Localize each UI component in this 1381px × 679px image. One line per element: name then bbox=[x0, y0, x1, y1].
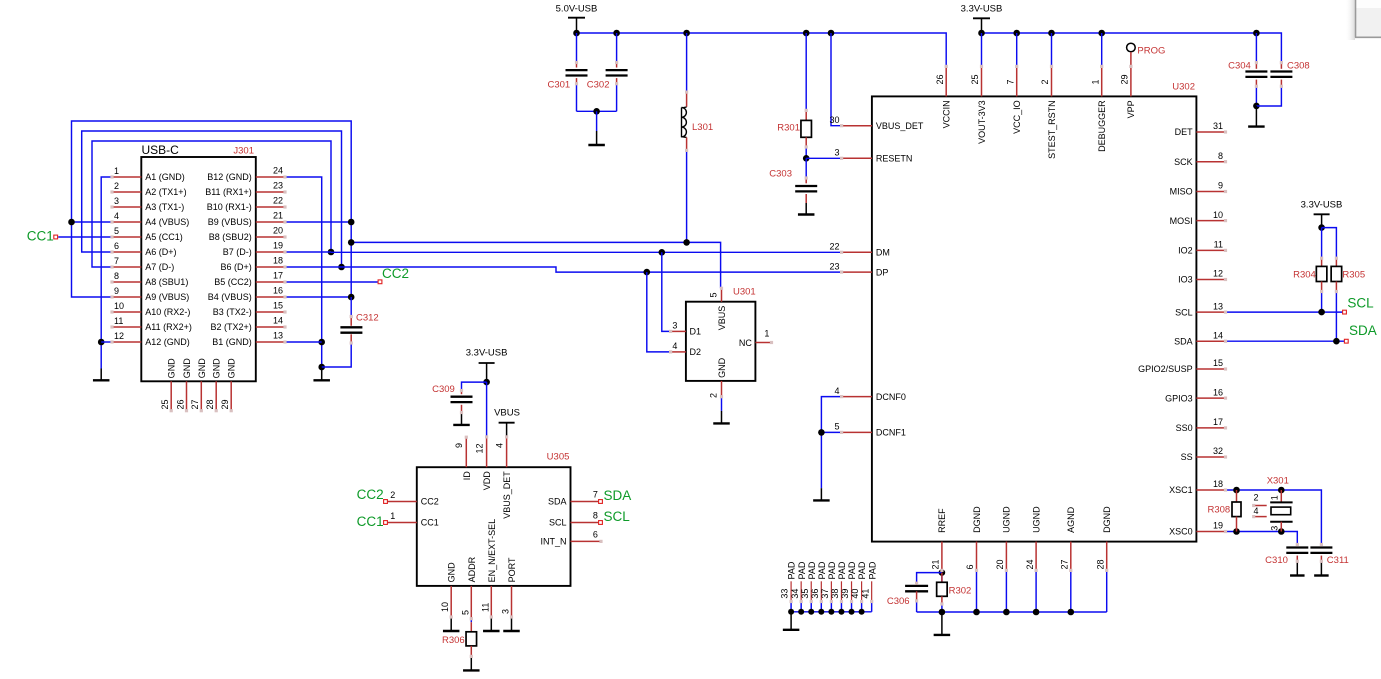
crystal X301 bbox=[1270, 501, 1292, 503]
svg-text:18: 18 bbox=[1213, 479, 1223, 489]
svg-text:VBUS: VBUS bbox=[494, 408, 520, 419]
U302 right pin 32 SS bbox=[1196, 456, 1225, 458]
wire VDD drop bbox=[486, 382, 488, 437]
crystal X301 pin 3 lead bbox=[1280, 522, 1282, 532]
svg-text:VBUS_DET: VBUS_DET bbox=[876, 121, 924, 131]
svg-text:VDD: VDD bbox=[482, 471, 492, 491]
wire 3.3V drop x=1016.7 bbox=[1016, 33, 1018, 66]
ground C304/C308 bbox=[1255, 106, 1257, 127]
svg-text:26: 26 bbox=[935, 74, 945, 84]
svg-text:12: 12 bbox=[1213, 269, 1223, 279]
U302 bottom pin 28 DGND bbox=[1106, 542, 1108, 571]
svg-text:8: 8 bbox=[1218, 151, 1223, 161]
power 5.0V-USB bbox=[568, 17, 585, 19]
svg-text:XSC0: XSC0 bbox=[1169, 527, 1193, 537]
junction gnd rail bbox=[1033, 609, 1040, 616]
capacitor C310 bottom lead bbox=[1296, 556, 1298, 562]
junction 5V/C302 bbox=[613, 30, 620, 37]
U302 right pin 12 IO3 bbox=[1196, 279, 1225, 281]
svg-text:PAD: PAD bbox=[807, 561, 817, 579]
J301 pin 1 A1 (GND) bbox=[112, 176, 141, 178]
U302 right pin 18 XSC1 bbox=[1196, 489, 1225, 491]
wire SCL bbox=[1226, 311, 1344, 313]
capacitor C312 bbox=[340, 326, 362, 328]
svg-text:A1 (GND): A1 (GND) bbox=[145, 172, 185, 182]
terminal SCL bbox=[1343, 310, 1347, 314]
junction VDD/C309 bbox=[483, 379, 490, 386]
capacitor C308 bbox=[1270, 70, 1292, 72]
svg-text:40: 40 bbox=[850, 589, 860, 599]
U301 pin 5 VBUS bbox=[721, 288, 723, 301]
ground U305 GND bbox=[450, 617, 452, 631]
svg-text:35: 35 bbox=[800, 589, 810, 599]
svg-text:R302: R302 bbox=[949, 585, 972, 596]
svg-text:8: 8 bbox=[114, 271, 119, 281]
ground C303 bbox=[805, 203, 807, 215]
wire DCNF0 bbox=[821, 397, 841, 489]
svg-text:DCNF0: DCNF0 bbox=[876, 392, 906, 402]
resistor R305 bbox=[1331, 266, 1342, 281]
J301 pin 19 B7 (D-) bbox=[256, 251, 285, 253]
svg-text:SCL: SCL bbox=[1175, 307, 1193, 317]
svg-text:MOSI: MOSI bbox=[1170, 216, 1193, 226]
junction PAD bbox=[838, 609, 844, 615]
U305 pin 3 PORT bbox=[511, 586, 513, 617]
svg-text:SDA: SDA bbox=[1174, 336, 1193, 346]
svg-text:SDA: SDA bbox=[548, 497, 567, 507]
svg-text:AGND: AGND bbox=[1066, 506, 1076, 533]
J301 pin 16 B4 (VBUS) bbox=[256, 296, 285, 298]
J301 pin 25 GND bbox=[170, 381, 172, 410]
svg-text:USB-C: USB-C bbox=[142, 143, 180, 157]
wire 3.3V rail bbox=[982, 33, 1282, 63]
junction PAD bbox=[798, 609, 804, 615]
svg-text:11: 11 bbox=[1214, 240, 1223, 250]
svg-text:7: 7 bbox=[1005, 79, 1015, 84]
svg-text:GND: GND bbox=[197, 358, 207, 379]
U305 pin 9 ID bbox=[465, 437, 467, 467]
svg-text:STEST_RSTN: STEST_RSTN bbox=[1047, 100, 1057, 159]
J301 pin 9 A9 (VBUS) bbox=[112, 296, 141, 298]
junction A4 VBUS bbox=[68, 219, 75, 226]
svg-text:SS0: SS0 bbox=[1176, 423, 1193, 433]
junction B4 VBUS bbox=[348, 294, 355, 301]
junction rail/pin25 bbox=[978, 30, 985, 37]
svg-text:C311: C311 bbox=[1327, 555, 1349, 566]
svg-text:X301: X301 bbox=[1267, 476, 1289, 487]
junction rail/pin2 bbox=[1048, 30, 1055, 37]
svg-text:1: 1 bbox=[114, 166, 119, 176]
svg-text:24: 24 bbox=[273, 166, 283, 176]
svg-text:18: 18 bbox=[273, 256, 283, 266]
wire RESETN bbox=[806, 157, 841, 159]
J301 pin 6 A6 (D+) bbox=[112, 251, 141, 253]
svg-text:27: 27 bbox=[1060, 559, 1070, 569]
junction PAD bbox=[788, 609, 794, 615]
J301 pin 2 A2 (TX1+) bbox=[112, 191, 141, 193]
svg-text:VBUS: VBUS bbox=[717, 306, 727, 331]
junction DM/U301 D1 bbox=[659, 249, 666, 256]
svg-text:4: 4 bbox=[1254, 506, 1259, 516]
svg-text:CC1: CC1 bbox=[357, 514, 384, 529]
J301 pin 17 B5 (CC2) bbox=[256, 281, 285, 283]
svg-text:B12 (GND): B12 (GND) bbox=[207, 172, 252, 182]
wire VBUS A-side (A4/A9) bbox=[72, 121, 352, 297]
svg-text:CC2: CC2 bbox=[357, 487, 384, 502]
ground C301/C302 bbox=[596, 131, 598, 145]
resistor R304 top lead bbox=[1321, 228, 1323, 259]
U302 left pin 3 RESETN bbox=[842, 157, 872, 159]
wire C312 top lead bbox=[350, 297, 352, 317]
resistor R308 bbox=[1232, 502, 1241, 517]
svg-text:16: 16 bbox=[273, 286, 283, 296]
U302 bottom pin 21 RREF bbox=[941, 542, 943, 571]
capacitor C301 bbox=[566, 69, 588, 71]
svg-text:8: 8 bbox=[593, 510, 598, 520]
capacitor C303 bottom lead bbox=[805, 194, 807, 203]
junction 5V/C301 bbox=[573, 30, 580, 37]
resistor R304 bottom lead bbox=[1321, 282, 1323, 292]
svg-text:A10 (RX2-): A10 (RX2-) bbox=[145, 307, 190, 317]
svg-text:9: 9 bbox=[454, 443, 464, 448]
svg-text:SCL: SCL bbox=[1347, 295, 1374, 310]
wire DM bbox=[331, 251, 842, 253]
wire XSC1 bbox=[1225, 490, 1322, 543]
svg-text:A2 (TX1+): A2 (TX1+) bbox=[145, 187, 186, 197]
capacitor C304 top lead bbox=[1255, 33, 1257, 63]
svg-text:6: 6 bbox=[114, 241, 119, 251]
ground C311 bbox=[1320, 561, 1322, 575]
svg-text:U301: U301 bbox=[733, 287, 756, 298]
PAD pin 33 bbox=[790, 581, 792, 601]
PAD pin 35 bbox=[810, 581, 812, 601]
svg-text:C301: C301 bbox=[547, 80, 570, 91]
junction rail/pin7 bbox=[1013, 30, 1020, 37]
wire XSC0 bbox=[1225, 532, 1298, 544]
pin PROG circle bbox=[1127, 43, 1136, 52]
U302 left pin 4 DCNF0 bbox=[842, 396, 872, 398]
inductor L301 bottom lead bbox=[686, 138, 688, 151]
power 3.3V-USB (U305) bbox=[479, 362, 495, 364]
junction DP/U301 D2 bbox=[644, 269, 651, 276]
U302 left pin 23 DP bbox=[842, 271, 872, 273]
U302 top pin 25 VOUT-3V3 bbox=[981, 66, 983, 96]
IC U305 outline bbox=[417, 467, 571, 586]
svg-text:6: 6 bbox=[593, 529, 598, 539]
crystal X301 pin 1 lead bbox=[1280, 490, 1282, 502]
svg-text:PAD: PAD bbox=[797, 561, 807, 579]
svg-text:PAD: PAD bbox=[857, 561, 867, 579]
svg-text:24: 24 bbox=[1025, 559, 1035, 569]
svg-text:C310: C310 bbox=[1265, 555, 1288, 566]
junction gnd rail bbox=[973, 609, 980, 616]
U302 top pin 7 VCC_IO bbox=[1016, 66, 1018, 96]
junction pullup top bbox=[1318, 224, 1325, 231]
power 3.3V-USB (top) bbox=[973, 17, 990, 19]
wire DCNF1 bbox=[821, 431, 841, 433]
U302 right pin 8 SCK bbox=[1196, 161, 1225, 163]
junction 5V/R301 bbox=[803, 30, 810, 37]
junction XSC0/R308 bbox=[1233, 528, 1240, 535]
U302 right pin 14 SDA bbox=[1196, 340, 1225, 342]
J301 pin 23 B11 (RX1+) bbox=[256, 191, 285, 193]
svg-text:12: 12 bbox=[474, 443, 484, 453]
svg-text:4: 4 bbox=[114, 211, 119, 221]
J301 pin 11 A11 (RX2+) bbox=[112, 326, 141, 328]
inductor L301 top lead bbox=[686, 33, 688, 92]
J301 pin 21 B9 (VBUS) bbox=[256, 221, 285, 223]
svg-text:7: 7 bbox=[593, 489, 598, 499]
wire UGND 24 drop bbox=[1035, 570, 1037, 612]
svg-text:41: 41 bbox=[860, 589, 870, 599]
J301 pin 13 B1 (GND) bbox=[256, 341, 285, 343]
J301 pin 4 A4 (VBUS) bbox=[112, 221, 141, 223]
C301 bottom lead bbox=[576, 78, 578, 84]
wire U301 D2 drop bbox=[647, 272, 671, 352]
wire RREF net bbox=[941, 570, 943, 582]
IC U302 outline bbox=[872, 96, 1197, 541]
svg-text:J301: J301 bbox=[233, 146, 254, 157]
wire B12 GND down bbox=[285, 177, 322, 369]
U302 bottom pin 6 DGND bbox=[976, 542, 978, 571]
junction 5V/L301 bbox=[683, 30, 690, 37]
resistor R305 bottom lead bbox=[1335, 282, 1337, 292]
junction B9 VBUS bbox=[348, 219, 355, 226]
svg-text:6: 6 bbox=[965, 564, 975, 569]
junction XSC1/X301 bbox=[1278, 487, 1285, 494]
junction PAD bbox=[818, 609, 824, 615]
PAD pin 40 bbox=[861, 581, 863, 601]
wire VPP/PROG bbox=[1130, 52, 1132, 66]
svg-text:2: 2 bbox=[709, 393, 719, 398]
U302 right pin 31 DET bbox=[1196, 131, 1225, 133]
svg-text:C309: C309 bbox=[432, 384, 455, 395]
wire B5 CC2 bbox=[285, 281, 378, 283]
wire RREF to C306 bbox=[917, 573, 942, 584]
U302 right pin 10 MOSI bbox=[1196, 220, 1225, 222]
resistor R301 bbox=[801, 120, 812, 137]
terminal SDA bbox=[1344, 339, 1348, 343]
svg-text:GPIO3: GPIO3 bbox=[1165, 393, 1193, 403]
J301 pin 14 B2 (TX2+) bbox=[256, 326, 285, 328]
U302 top pin 29 VPP bbox=[1130, 66, 1132, 96]
U302 bottom pin 27 AGND bbox=[1070, 542, 1072, 571]
svg-text:R304: R304 bbox=[1293, 270, 1316, 281]
svg-text:C312: C312 bbox=[356, 313, 379, 324]
svg-text:SS: SS bbox=[1181, 452, 1193, 462]
svg-text:17: 17 bbox=[1213, 417, 1223, 427]
svg-text:A5 (CC1): A5 (CC1) bbox=[145, 232, 183, 242]
junction rail/C304 bbox=[1253, 30, 1260, 37]
svg-text:R306: R306 bbox=[442, 635, 465, 646]
wire ground rail (U302) bbox=[917, 611, 1107, 613]
capacitor C311 bottom lead bbox=[1320, 556, 1322, 562]
svg-text:3.3V-USB: 3.3V-USB bbox=[466, 348, 508, 359]
wire 3.3V drop x=981.5 bbox=[981, 33, 983, 66]
J301 pin 26 GND bbox=[186, 381, 188, 410]
svg-text:PAD: PAD bbox=[837, 561, 847, 579]
capacitor C311 bbox=[1310, 546, 1332, 548]
U305 pin 4 VBUS_DET bbox=[506, 437, 508, 467]
svg-text:SDA: SDA bbox=[604, 488, 632, 503]
J301 pin 8 A8 (SBU1) bbox=[112, 281, 141, 283]
junction SDA/R305 bbox=[1333, 338, 1340, 345]
junction C304/C308 gnd bbox=[1253, 103, 1260, 110]
svg-text:PROG: PROG bbox=[1137, 46, 1165, 57]
svg-text:PAD: PAD bbox=[817, 561, 827, 579]
svg-text:39: 39 bbox=[840, 589, 850, 599]
U302 right pin 19 XSC0 bbox=[1196, 531, 1225, 533]
J301 pin 24 B12 (GND) bbox=[256, 176, 285, 178]
UI scrollbar corner box bbox=[1355, 0, 1381, 38]
U305 pin 5 ADDR bbox=[470, 586, 472, 619]
J301 pin 5 A5 (CC1) bbox=[112, 236, 141, 238]
wire to ground bbox=[596, 111, 598, 131]
junction VBUS/vertical bbox=[348, 239, 355, 246]
svg-text:36: 36 bbox=[810, 589, 820, 599]
U302 right pin 11 IO2 bbox=[1196, 249, 1225, 251]
svg-text:IO2: IO2 bbox=[1178, 246, 1193, 256]
svg-text:RESETN: RESETN bbox=[876, 154, 913, 164]
wire C312 bottom to ground bbox=[350, 334, 352, 343]
svg-text:GND: GND bbox=[227, 358, 237, 379]
svg-text:34: 34 bbox=[790, 589, 800, 599]
svg-text:14: 14 bbox=[1213, 330, 1223, 340]
svg-text:DGND: DGND bbox=[972, 506, 982, 533]
inductor L301 bbox=[681, 108, 683, 138]
wire PAD rail bbox=[791, 611, 872, 613]
svg-text:A3 (TX1-): A3 (TX1-) bbox=[145, 202, 184, 212]
svg-text:3: 3 bbox=[1269, 526, 1279, 531]
J301 pin 28 GND bbox=[215, 381, 217, 410]
wire 5V rail bbox=[577, 33, 947, 66]
U302 left pin 5 DCNF1 bbox=[842, 431, 872, 433]
wire B4 VBUS link bbox=[285, 296, 351, 298]
wire A1/A12 GND bbox=[101, 177, 112, 369]
J301 pin 27 GND bbox=[200, 381, 202, 410]
wire DGND 6 drop bbox=[976, 570, 978, 612]
svg-text:L301: L301 bbox=[692, 122, 713, 133]
wire D- A7 to top bbox=[92, 141, 331, 267]
svg-text:DEBUGGER: DEBUGGER bbox=[1097, 100, 1107, 152]
junction A12 GND bbox=[98, 339, 105, 346]
wire B1 GND link bbox=[285, 341, 322, 343]
junction B1 GND bbox=[318, 339, 325, 346]
wire DP bbox=[342, 267, 842, 272]
U301 pin 1 NC bbox=[755, 342, 771, 344]
svg-text:XSC1: XSC1 bbox=[1169, 485, 1193, 495]
svg-text:20: 20 bbox=[273, 226, 283, 236]
svg-text:38: 38 bbox=[830, 589, 840, 599]
svg-text:5.0V-USB: 5.0V-USB bbox=[556, 3, 598, 14]
J301 pin 22 B10 (RX1-) bbox=[256, 206, 285, 208]
terminal CC2 (J301) bbox=[378, 280, 382, 284]
svg-text:15: 15 bbox=[273, 301, 283, 311]
svg-text:R305: R305 bbox=[1342, 270, 1365, 281]
svg-text:1: 1 bbox=[1269, 495, 1279, 500]
svg-text:C302: C302 bbox=[587, 80, 610, 91]
svg-text:27: 27 bbox=[190, 399, 200, 409]
svg-text:VCCIN: VCCIN bbox=[942, 100, 952, 128]
junction DCNF1 bbox=[818, 429, 825, 436]
J301 pin 15 B3 (TX2-) bbox=[256, 311, 285, 313]
wire C301/C302 join bbox=[577, 110, 617, 112]
resistor R305 top lead bbox=[1335, 258, 1337, 266]
svg-text:GND: GND bbox=[167, 358, 177, 379]
svg-text:R301: R301 bbox=[777, 123, 800, 134]
svg-text:B5 (CC2): B5 (CC2) bbox=[214, 277, 252, 287]
capacitor C309 bottom lead bbox=[461, 405, 463, 413]
U305 pin 8 SCL bbox=[571, 522, 600, 524]
svg-text:A8 (SBU1): A8 (SBU1) bbox=[145, 277, 188, 287]
ground U305 PORT bbox=[511, 617, 513, 631]
svg-text:4: 4 bbox=[672, 341, 677, 351]
svg-text:DGND: DGND bbox=[1102, 506, 1112, 533]
svg-text:PAD: PAD bbox=[787, 561, 797, 579]
svg-text:A7 (D-): A7 (D-) bbox=[145, 262, 174, 272]
svg-text:CC1: CC1 bbox=[27, 229, 54, 244]
wire DGND 28 drop bbox=[1106, 570, 1108, 612]
J301 pin 3 A3 (TX1-) bbox=[112, 206, 141, 208]
wire 3.3V drop x=1101.7 bbox=[1101, 33, 1103, 66]
PAD pin 34 bbox=[800, 581, 802, 601]
U301 pin 2 GND bbox=[721, 381, 723, 397]
junction RESETN bbox=[803, 155, 810, 162]
capacitor C309 bbox=[451, 396, 473, 398]
resistor R301 top lead bbox=[805, 33, 807, 110]
svg-text:A9 (VBUS): A9 (VBUS) bbox=[145, 292, 189, 302]
capacitor C306 bbox=[905, 585, 928, 587]
svg-text:SDA: SDA bbox=[1349, 323, 1377, 338]
svg-text:NC: NC bbox=[739, 338, 752, 348]
ground C310 bbox=[1296, 561, 1298, 575]
junction PAD bbox=[849, 609, 855, 615]
svg-text:37: 37 bbox=[820, 589, 830, 599]
U302 top pin 2 STEST_RSTN bbox=[1051, 66, 1053, 96]
resistor R306 bbox=[466, 632, 477, 646]
capacitor C308 top lead bbox=[1280, 63, 1282, 69]
svg-text:EN_N/EXT-SEL: EN_N/EXT-SEL bbox=[487, 519, 497, 583]
U302 right pin 16 GPIO3 bbox=[1196, 397, 1225, 399]
svg-text:B11 (RX1+): B11 (RX1+) bbox=[205, 187, 252, 197]
ground R306 bbox=[470, 656, 472, 670]
resistor R302 bbox=[937, 582, 948, 596]
ground C309 bbox=[461, 413, 463, 425]
svg-text:2: 2 bbox=[1040, 79, 1050, 84]
resistor R302 top lead bbox=[941, 573, 943, 583]
svg-text:GND: GND bbox=[447, 562, 457, 583]
J301 pin 12 A12 (GND) bbox=[112, 341, 141, 343]
C302 bottom lead bbox=[616, 78, 618, 84]
svg-text:IO3: IO3 bbox=[1178, 275, 1193, 285]
svg-text:SCK: SCK bbox=[1174, 157, 1193, 167]
svg-text:2: 2 bbox=[390, 490, 395, 500]
svg-text:UGND: UGND bbox=[1002, 506, 1012, 533]
svg-text:29: 29 bbox=[220, 399, 230, 409]
svg-text:CC2: CC2 bbox=[421, 497, 439, 507]
ground J301 left bbox=[100, 369, 102, 381]
svg-text:UGND: UGND bbox=[1031, 506, 1041, 533]
svg-text:9: 9 bbox=[114, 286, 119, 296]
svg-text:D1: D1 bbox=[690, 327, 702, 337]
wire AGND 27 drop bbox=[1070, 570, 1072, 612]
svg-text:7: 7 bbox=[114, 256, 119, 266]
svg-text:B4 (VBUS): B4 (VBUS) bbox=[208, 292, 252, 302]
wire ADDR to R306 bbox=[470, 619, 472, 623]
junction SCL/R304 bbox=[1318, 309, 1325, 316]
PAD pin 41 bbox=[871, 581, 873, 601]
svg-text:32: 32 bbox=[1213, 446, 1223, 456]
